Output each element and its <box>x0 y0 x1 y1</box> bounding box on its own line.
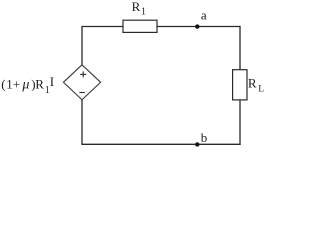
svg-text:(1+μ)R1I: (1+μ)R1I <box>1 74 54 96</box>
wire top horizontal left segment <box>81 26 123 28</box>
wire right vertical lower <box>239 100 241 145</box>
svg-text:a: a <box>201 8 207 23</box>
wire left vertical upper <box>81 27 83 66</box>
resistor RL <box>233 70 247 100</box>
wire top horizontal right segment <box>157 26 241 28</box>
node a <box>195 24 199 28</box>
controlled source U1 diamond <box>63 65 100 100</box>
wire left vertical lower <box>81 100 83 145</box>
svg-text:R1: R1 <box>132 0 146 17</box>
minus sign <box>79 92 84 94</box>
wire bottom horizontal <box>81 143 240 145</box>
resistor R1 <box>123 20 157 32</box>
node b <box>195 142 199 146</box>
svg-text:b: b <box>201 130 208 145</box>
wire right vertical upper <box>239 26 241 70</box>
plus sign <box>80 71 86 77</box>
svg-text:RL: RL <box>248 76 264 95</box>
